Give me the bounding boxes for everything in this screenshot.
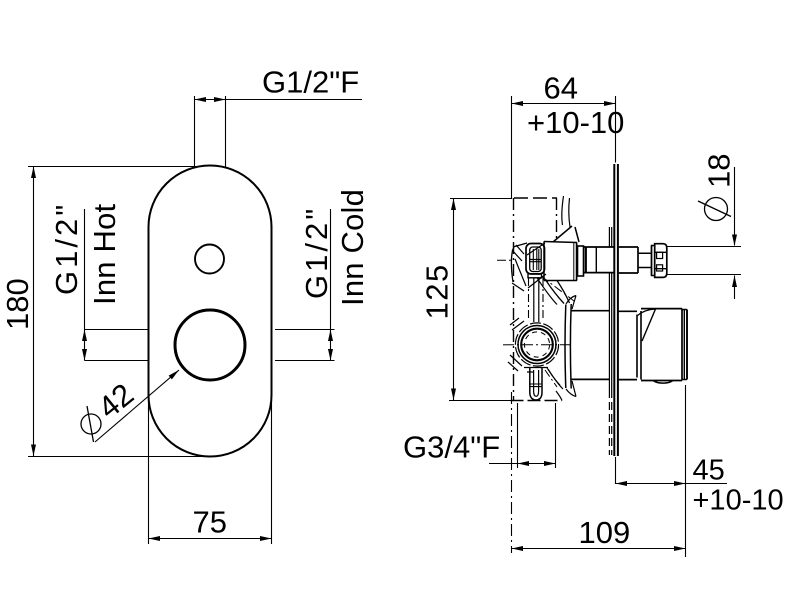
union inner detail arc <box>524 332 549 357</box>
dim 125: top extension line <box>450 198 512 200</box>
cap block outline <box>544 242 577 281</box>
angled port centerline (dash-dot) <box>541 276 574 301</box>
shaft to handle nut <box>638 246 652 276</box>
stem collar edge <box>585 247 587 273</box>
G3/4 bottom port outer U bottom <box>530 393 542 401</box>
svg-text:Inn Hot: Inn Hot <box>87 203 122 305</box>
hidden rough-in box right edge (dash-dot) <box>556 198 558 240</box>
mounting plate (thin, behind cover) <box>609 227 611 390</box>
outlet shoulder arc <box>638 309 656 316</box>
left tab upper <box>510 318 524 330</box>
dim 75: dimension line <box>149 538 272 540</box>
cartridge inner vertical lines <box>533 249 539 270</box>
dim G3/4: right extension line <box>555 403 557 468</box>
stem axis centerline (dash-dot) <box>497 259 512 261</box>
flange double vertical (sketchy) <box>564 305 567 389</box>
dim 109: dimension line <box>512 548 686 550</box>
svg-text:G1/2": G1/2" <box>49 202 84 295</box>
flange top curl <box>566 296 576 310</box>
union ring middle <box>518 326 556 364</box>
cold inlet leader line (right) <box>330 209 332 361</box>
cartridge mid horizontal double line <box>530 260 542 262</box>
small upper hole <box>195 245 224 274</box>
dims of right view <box>403 71 784 558</box>
leader d42 arrow line <box>95 370 179 442</box>
outlet cylinder section at wall <box>618 311 637 379</box>
svg-text:+10-10: +10-10 <box>527 105 624 140</box>
dim 75: left extension line <box>148 400 150 544</box>
handle nut body <box>655 244 667 278</box>
dim 180: bottom extension line <box>28 456 205 458</box>
svg-text:Inn Cold: Inn Cold <box>335 189 370 306</box>
svg-text:125: 125 <box>420 263 455 319</box>
dim d18: upper extension line <box>667 246 741 248</box>
svg-text:75: 75 <box>193 505 227 540</box>
cold inlet lower extension line <box>275 360 335 362</box>
svg-text:45: 45 <box>693 455 725 487</box>
port neck shoulder <box>524 368 548 373</box>
diameter symbol of d42 <box>81 414 101 434</box>
dim G1/2"F top: extension line left <box>194 96 196 169</box>
cartridge retainer outer rounded rect <box>526 244 545 275</box>
cartridge retainer inner rect <box>530 247 542 272</box>
dim d18: lower arrow line <box>734 276 736 300</box>
waterway tube solid edges <box>534 278 539 322</box>
nut hex facet lines <box>655 252 667 268</box>
dim d18: vertical line from label <box>734 167 736 246</box>
dim G3/4: dimension line <box>489 463 556 465</box>
dim 109: left extension line (dash-dot) <box>511 392 513 553</box>
dim d18: lower extension line <box>667 274 741 276</box>
G3/4 port inner walls <box>534 370 539 391</box>
hidden waterway dashed verticals to union <box>528 278 530 318</box>
stem section outside wall <box>618 247 638 273</box>
hot inlet upper extension line <box>85 329 149 331</box>
stem divider line <box>595 247 597 273</box>
left tab lower <box>508 355 522 371</box>
svg-text:64: 64 <box>544 71 578 106</box>
dim G3/4: left extension line <box>517 403 519 468</box>
G3/4 bottom port outer walls <box>530 368 542 393</box>
outlet groove ring <box>637 311 641 380</box>
hot inlet leader line (left) <box>84 209 86 361</box>
svg-text:G1/2": G1/2" <box>299 206 334 299</box>
diameter symbol of d18 <box>705 198 728 221</box>
top port triangle right line <box>575 227 579 242</box>
top outlet port sketch lines <box>562 196 564 225</box>
stub horizontal seam lines <box>530 384 542 387</box>
dim 64: dimension line <box>512 103 616 105</box>
handle nut collar <box>652 246 655 276</box>
cap right edge (sketchy double) <box>576 243 578 281</box>
wing diagonal upper (to cap) <box>527 243 545 255</box>
dim 45: dimension line <box>616 483 728 485</box>
dim 125: dimension line <box>453 199 455 401</box>
neck from cap to cylinder (sketch) <box>546 281 564 304</box>
body bottom edge (dashed) <box>511 400 563 402</box>
svg-text:109: 109 <box>579 515 631 550</box>
svg-text:18: 18 <box>702 154 737 188</box>
chrome cover plate (thick double line) <box>613 164 615 456</box>
union ring outer (sketchy dashed circle) <box>515 323 558 366</box>
svg-text:G3/4"F: G3/4"F <box>403 430 500 465</box>
body top edge at cap <box>544 242 577 243</box>
hot inlet lower extension line <box>85 360 149 362</box>
dim 64: left extension line <box>511 96 513 199</box>
dim 45/109: right extension line <box>685 385 687 557</box>
lower hidden diagonal centerline <box>545 370 557 387</box>
outlet chamfer diagonal <box>642 309 656 341</box>
top port triangle left line <box>553 226 572 242</box>
dim 180: vertical dimension line <box>33 167 35 457</box>
stem section behind wall <box>584 247 615 273</box>
union centerline horizontal (dash-dot) <box>503 344 572 346</box>
lower right neck sketch <box>548 369 563 389</box>
dim 75: right extension line <box>271 400 273 544</box>
hidden rough-in box top edge (dashed) <box>514 197 557 199</box>
left wing bracket sketch lines <box>513 243 527 247</box>
G3/4 port inner U bottom <box>534 391 539 396</box>
union ring inner bold <box>521 329 553 361</box>
svg-text:180: 180 <box>0 278 35 330</box>
dim 180: top extension line <box>28 166 196 168</box>
svg-text:+10-10: +10-10 <box>693 485 784 517</box>
nut facet squares <box>657 252 663 258</box>
dim 125: bottom extension line <box>449 400 512 402</box>
outlet bottom detail arc <box>653 381 673 384</box>
oval cover plate front view <box>149 166 272 457</box>
cold inlet upper extension line <box>275 329 335 331</box>
dim G1/2"F top: dimension line <box>195 99 363 101</box>
lower body: outlet cylinder left of wall <box>571 311 609 380</box>
cartridge base lip <box>528 274 542 278</box>
dims of left view <box>0 65 370 545</box>
large lower hole d42 <box>175 310 245 380</box>
wing diagonal lower <box>528 274 546 288</box>
svg-text:G1/2"F: G1/2"F <box>262 65 359 100</box>
dim 45: left extension line (from plate) <box>615 457 617 484</box>
dim 64: right extension line <box>615 96 617 163</box>
dim G1/2"F top: extension line right <box>225 96 227 168</box>
left body rounded edge <box>511 247 514 282</box>
outlet main cylinder <box>641 309 682 381</box>
flange bottom curl <box>566 381 576 397</box>
outlet end cap <box>682 310 687 380</box>
bonnet ring <box>578 246 584 276</box>
hidden rough-in box left edge (dash-dot) <box>513 198 515 401</box>
